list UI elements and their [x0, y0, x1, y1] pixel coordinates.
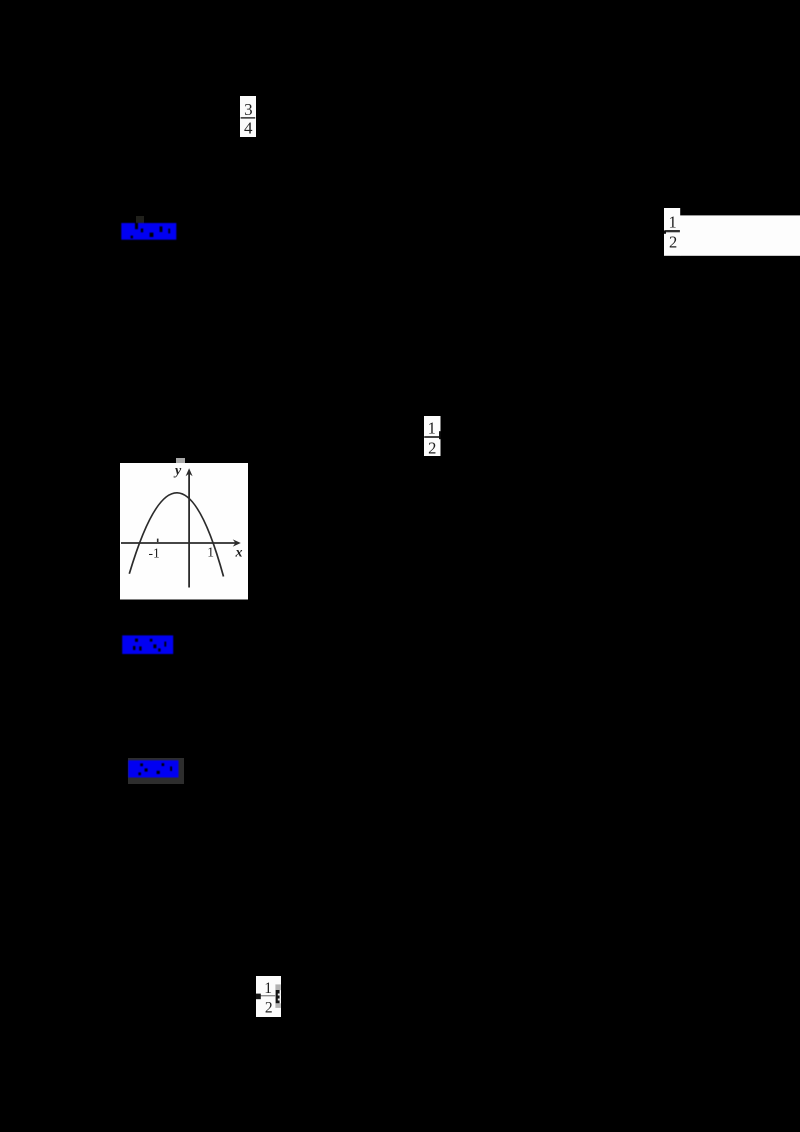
svg-text:1: 1	[264, 980, 272, 997]
blue label 2 [fen xi]	[122, 635, 174, 655]
y axis	[188, 472, 190, 588]
svg-text:3: 3	[244, 100, 253, 119]
tick at -1	[156, 539, 158, 542]
fraction -1/2 equation image	[256, 976, 281, 1017]
dark tab above label 1	[136, 216, 144, 224]
svg-text:2: 2	[264, 999, 272, 1016]
parabola	[129, 493, 223, 577]
grey highlight behind label 3	[128, 758, 184, 783]
svg-text:-1: -1	[148, 546, 159, 561]
blue label 3 [jie da]	[128, 760, 179, 778]
svg-text:2: 2	[669, 232, 677, 251]
grey tab above graph	[176, 458, 185, 464]
fraction 3/4 equation image	[240, 96, 256, 137]
fraction 1/2 equation image (right edge)	[664, 208, 800, 256]
svg-text:1: 1	[668, 212, 676, 231]
blue label 1 [da an]	[121, 223, 177, 240]
fraction 1/2 equation image (middle)	[424, 416, 441, 457]
graph figure: downward parabola with axes	[120, 463, 249, 600]
svg-text:y: y	[173, 464, 182, 479]
svg-text:x: x	[234, 546, 242, 561]
svg-text:1: 1	[207, 545, 214, 560]
svg-text:2: 2	[428, 438, 436, 456]
svg-text:1: 1	[428, 418, 436, 437]
x axis	[121, 542, 237, 544]
svg-text:4: 4	[244, 118, 253, 136]
